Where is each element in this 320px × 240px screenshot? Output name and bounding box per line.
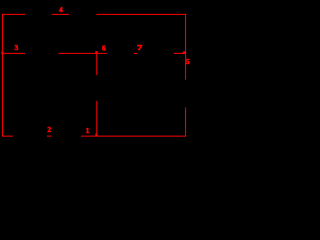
svg-text:1: 1	[86, 126, 90, 135]
svg-text:3: 3	[14, 43, 18, 52]
svg-text:4: 4	[59, 5, 63, 14]
svg-text:7: 7	[137, 43, 143, 52]
svg-text:5: 5	[186, 57, 190, 66]
svg-text:6: 6	[102, 44, 106, 53]
svg-text:2: 2	[47, 125, 51, 134]
